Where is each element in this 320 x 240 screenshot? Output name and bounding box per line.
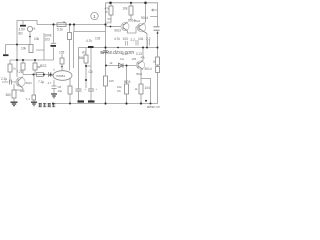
resistor R2 (8, 64, 12, 72)
svg-text:103: 103 (95, 37, 101, 41)
svg-text:9014: 9014 (26, 81, 33, 85)
capacitor C8 plates (52, 86, 57, 89)
resistor R12 (84, 55, 88, 63)
capacitor C11 plates on rail (103, 51, 108, 53)
transistor BG6 (136, 61, 144, 70)
svg-text:C6: C6 (89, 70, 93, 74)
wire bg3 base (106, 26, 122, 28)
wire mid horizontal bus (37, 24, 106, 26)
svg-text:B: B (34, 27, 36, 31)
capacitor C10 plates (88, 89, 94, 91)
wire c8 drop (53, 80, 55, 94)
wire oval feed (62, 25, 74, 72)
wire y31 row (74, 25, 106, 32)
svg-text:10k: 10k (34, 37, 40, 41)
wire emitter x34 drop (33, 75, 35, 102)
wire y65 row (106, 65, 137, 67)
resistor R8 (33, 63, 37, 70)
resistor R14 (125, 84, 129, 94)
wire oval left lead (48, 75, 53, 77)
svg-text:9014: 9014 (145, 67, 152, 71)
svg-text:104: 104 (138, 37, 144, 41)
label speaker chinese (39, 103, 56, 107)
wire left rail drop (10, 50, 44, 82)
capacitor C16 plates (148, 40, 150, 46)
resistor R5 horizontal (57, 23, 66, 27)
wire r7 drop (22, 60, 24, 75)
svg-text:dzsc.com: dzsc.com (147, 104, 160, 109)
resistor R4 360 (12, 90, 16, 98)
svg-text:www.dzsc.com: www.dzsc.com (101, 50, 134, 56)
wire right rail105 (105, 3, 107, 104)
svg-text:2.2: 2.2 (146, 37, 151, 41)
svg-text:4.7k: 4.7k (86, 39, 92, 43)
ground GND3 (51, 94, 57, 98)
svg-text:105: 105 (59, 51, 65, 55)
capacitor C1 top bar (20, 25, 26, 27)
resistor R11 horizontal (37, 73, 44, 77)
svg-text:1: 1 (93, 14, 96, 20)
transistor BG1 (16, 77, 25, 89)
svg-text:47k: 47k (141, 56, 146, 60)
ground GND1 (11, 102, 18, 105)
capacitor C15 plates (136, 40, 138, 46)
resistor R17 (32, 95, 36, 100)
wire r36k drop (86, 48, 91, 89)
svg-text:2.2μ: 2.2μ (1, 77, 7, 81)
wire bg5 drop (126, 66, 128, 104)
capacitor C2 plates (10, 80, 12, 85)
svg-text:7.2μ: 7.2μ (38, 80, 44, 84)
svg-text:105: 105 (132, 57, 137, 61)
svg-text:BG5: BG5 (124, 80, 131, 84)
resistor R19 on right rail (156, 67, 160, 73)
resistor R20 (68, 33, 72, 40)
svg-text:103: 103 (123, 37, 129, 41)
capacitor C14 plates (125, 41, 127, 46)
svg-text:103: 103 (45, 38, 51, 42)
svg-text:8Ω: 8Ω (19, 32, 24, 36)
wire c9 drop (78, 48, 80, 101)
wire r8 drop (34, 60, 36, 75)
wire collector row (23, 74, 54, 76)
wire r10 drop (130, 3, 132, 20)
svg-text:4.7k: 4.7k (114, 37, 120, 41)
capacitor C2 minus bar (3, 54, 9, 56)
resistor R15 (139, 84, 143, 94)
svg-text:2.2: 2.2 (131, 38, 136, 42)
capacitor C1 plate (22, 21, 24, 25)
svg-text:BG3: BG3 (115, 29, 122, 33)
wire top-left loop (17, 21, 37, 78)
svg-text:10k: 10k (123, 7, 129, 11)
capacitor C3 bar (51, 45, 57, 47)
resistor R13 on rail105 (104, 76, 108, 86)
IC oval U1 (53, 71, 72, 81)
svg-text:105: 105 (109, 79, 114, 83)
capacitor C10 bus bar (88, 100, 95, 102)
wire bg6 collector (142, 48, 144, 61)
svg-text:9014: 9014 (141, 16, 148, 20)
capacitor C7 plates (154, 27, 160, 30)
resistor R10 (129, 6, 133, 15)
node 1 circled (91, 12, 98, 20)
svg-text:BG2: BG2 (40, 64, 47, 68)
junction dots (52, 23, 54, 25)
svg-text:36k: 36k (79, 56, 85, 60)
resistor R6 above oval (60, 58, 64, 64)
wire bg6 emitter (141, 70, 151, 104)
transistor BG3 (121, 22, 129, 31)
capacitor C9 plates (76, 89, 82, 91)
resistor R16 on right rail (156, 57, 160, 65)
svg-text:5V6: 5V6 (107, 21, 112, 25)
wire mid right row (79, 47, 158, 49)
svg-text:1.1: 1.1 (26, 97, 30, 101)
wire input coupling (2, 81, 18, 83)
wire r14 drop (140, 79, 142, 104)
svg-text:BG4: BG4 (135, 19, 141, 23)
wire c3 drop (51, 25, 56, 61)
wire bg4 collector (145, 3, 147, 23)
svg-text:5.1k: 5.1k (57, 28, 63, 32)
wire r360 top (13, 84, 15, 90)
svg-text:7.2k: 7.2k (17, 70, 23, 74)
wire top bus (106, 2, 159, 4)
svg-text:10μ: 10μ (58, 89, 63, 93)
transistor BG4 (137, 23, 147, 34)
wire c10 drop (90, 48, 92, 101)
wire r-mid-bot drop (69, 78, 71, 104)
wire bg3 emitter (128, 27, 140, 33)
svg-text:A1: A1 (82, 51, 86, 55)
svg-text:10k: 10k (21, 47, 27, 51)
diode D1 (119, 63, 124, 68)
microphone B (27, 26, 32, 31)
wire bottom bus (53, 103, 158, 105)
resistor R3 (29, 45, 33, 53)
wire bg4 emitter (146, 34, 148, 48)
capacitor C4 plates (49, 72, 51, 77)
capacitor C9 bus bar (78, 100, 85, 102)
svg-text:W: W (105, 10, 108, 14)
wire right edge rail (157, 3, 159, 104)
wire arrow row (150, 9, 158, 17)
ground GND2 (31, 102, 37, 105)
wire mic drop (29, 32, 31, 45)
wire left input row (6, 44, 30, 46)
resistor R9 (109, 6, 113, 15)
svg-text:C9: C9 (117, 89, 121, 93)
svg-text:104: 104 (145, 86, 151, 90)
svg-text:BG6: BG6 (137, 72, 143, 76)
svg-text:10k: 10k (20, 89, 25, 93)
svg-text:C13: C13 (136, 52, 142, 56)
capacitor C5 bar on wire (88, 46, 94, 48)
svg-text:360: 360 (6, 93, 12, 97)
wire node44 drop (43, 33, 45, 60)
wire left cap drop (5, 45, 7, 55)
resistor R18 (68, 86, 72, 94)
wire rail y60 (10, 59, 54, 61)
wire r9 drop (110, 3, 112, 22)
svg-text:4.7: 4.7 (48, 81, 52, 85)
svg-text:YM084: YM084 (56, 74, 66, 78)
wire bg1 emitter (14, 89, 23, 102)
resistor R7 (21, 63, 25, 70)
